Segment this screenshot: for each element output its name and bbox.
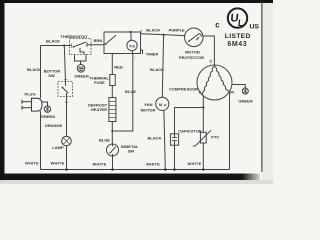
thermostat dashed box — [70, 39, 92, 55]
ground symbol (compressor, GREEN) — [242, 88, 248, 94]
svg-text:LAMP: LAMP — [52, 145, 64, 150]
svg-text:GREEN: GREEN — [41, 114, 55, 119]
wire timer to motor protector (BLACK / PURPLE) — [141, 34, 186, 36]
svg-text:HEATER: HEATER — [91, 107, 107, 112]
button switch dashed box — [58, 82, 73, 97]
svg-text:FUSE: FUSE — [94, 80, 105, 85]
node bimetal/bus junction — [111, 168, 114, 171]
timer motor circle Tm — [127, 40, 137, 50]
wire PTC to bus — [202, 143, 204, 170]
frame: bottom gray strip under band — [0, 180, 273, 184]
wire compressor S to PTC — [202, 96, 204, 132]
wire button switch to lamp (ORANGE) — [66, 97, 68, 137]
wire compressor ground stub — [232, 85, 245, 89]
motor protector heater tick — [196, 37, 199, 40]
frame: left black strip — [0, 0, 5, 181]
svg-text:BLACK: BLACK — [146, 28, 160, 33]
svg-text:c: c — [215, 21, 220, 30]
node capacitor/bus junction — [173, 168, 176, 171]
svg-text:GREEN: GREEN — [74, 74, 88, 79]
thermostat switch blade — [74, 42, 86, 47]
plug prong lower — [22, 107, 32, 109]
button switch inner stubs — [65, 82, 67, 87]
motor protector circle — [185, 28, 204, 47]
svg-text:TIMER: TIMER — [146, 52, 159, 57]
wire timer motor to top terminal — [130, 32, 132, 40]
svg-text:FAN: FAN — [145, 102, 153, 107]
thermostat entry tick — [71, 44, 73, 48]
ground symbol (thermostat, GREEN) — [77, 65, 85, 73]
wire thermostat lower stubs to ground — [75, 55, 87, 62]
svg-text:BLUE: BLUE — [99, 138, 110, 143]
button switch contact dot — [62, 87, 64, 89]
wire plug bottom to bus (WHITE) — [40, 111, 42, 169]
node junction S/capacitor — [202, 106, 204, 108]
compressor apex stub — [214, 65, 216, 66]
motor protector exit curve — [199, 34, 201, 37]
wire fan motor to bus (BLACK) — [164, 110, 165, 169]
wire heater to bimetal junction — [111, 122, 113, 144]
ground symbol (plug, GREEN) — [44, 106, 50, 112]
wire timer left pin to thermal fuse — [111, 54, 113, 75]
terminal tick on bus at timer — [140, 30, 142, 34]
svg-text:SW: SW — [128, 149, 135, 154]
wire fan drop (BLACK) — [162, 35, 163, 98]
compressor winding left arm — [203, 66, 215, 95]
wire timer right pin down (BLUE) — [112, 54, 133, 132]
wire thermostat to timer (BRN) — [87, 44, 104, 46]
wire plug ground stub — [42, 102, 48, 106]
svg-text:US: US — [250, 24, 260, 31]
svg-text:WHITE: WHITE — [51, 160, 65, 165]
svg-text:Tm: Tm — [129, 43, 135, 48]
svg-text:WHITE: WHITE — [25, 160, 39, 165]
wire junction drop to button switch — [64, 46, 65, 82]
svg-text:MOTOR: MOTOR — [141, 108, 156, 113]
timer top terminal dot — [129, 31, 131, 33]
svg-text:S: S — [199, 89, 202, 94]
node lamp/bus junction — [65, 168, 68, 171]
wire capacitor to bus (WHITE) — [174, 145, 176, 169]
thermostat inner link — [80, 48, 84, 55]
fan motor circle MF — [156, 97, 169, 110]
node junction dot (fan drop) — [163, 34, 165, 36]
svg-text:CAPACITOR: CAPACITOR — [178, 129, 202, 134]
svg-text:WHITE: WHITE — [188, 161, 202, 166]
svg-text:PLUG: PLUG — [24, 92, 35, 97]
timer box — [104, 32, 141, 54]
wire junction to capacitor corner — [175, 108, 204, 134]
timer switch blade — [105, 43, 107, 45]
svg-text:RED: RED — [114, 65, 123, 70]
button switch blade — [63, 88, 69, 94]
UL logo circle — [228, 8, 247, 27]
svg-text:BLUE: BLUE — [125, 89, 136, 94]
wire left drop to plug (BLACK) — [40, 46, 42, 99]
svg-text:LISTED: LISTED — [225, 33, 251, 40]
svg-text:GREEN: GREEN — [238, 99, 252, 104]
bimetal switch circle — [107, 144, 119, 156]
plug symbol — [32, 98, 43, 111]
svg-text:PROTECTOR: PROTECTOR — [179, 55, 204, 60]
svg-text:WHITE: WHITE — [146, 162, 160, 167]
svg-text:BLACK: BLACK — [148, 135, 162, 140]
wire compressor M to bus (right vertical) — [229, 92, 231, 170]
compressor circle — [197, 65, 232, 100]
background label area — [0, 0, 273, 184]
svg-text:PTC: PTC — [211, 134, 219, 139]
thermal fuse symbol — [110, 75, 115, 86]
terminal tick above button switch — [64, 79, 68, 81]
node PTC/bus junction — [202, 168, 205, 171]
compressor winding right arm — [214, 66, 229, 92]
motor protector contact dot — [188, 40, 190, 42]
capacitor symbol — [170, 134, 178, 145]
svg-text:BLACK: BLACK — [46, 39, 60, 44]
svg-text:PURPLE: PURPLE — [169, 28, 186, 33]
svg-text:6M43: 6M43 — [227, 41, 247, 48]
PTC symbol box — [200, 132, 206, 143]
svg-text:COMPRESSOR: COMPRESSOR — [169, 86, 198, 91]
thermostat fixed contact — [86, 43, 88, 47]
terminal tick below button switch — [65, 101, 69, 103]
svg-text:C: C — [210, 59, 213, 64]
node junction dot to button switch — [63, 44, 65, 46]
wire motor protector to compressor C — [203, 36, 215, 65]
svg-text:MOTOR: MOTOR — [185, 50, 200, 55]
wire timer motor to box bottom — [132, 51, 134, 54]
svg-text:BRN: BRN — [94, 38, 103, 43]
wire ground drop — [80, 61, 82, 65]
thermostat switch contact dot — [73, 46, 75, 48]
node heater/blue junction — [111, 130, 113, 132]
lamp symbol — [62, 136, 72, 146]
wire lamp to bottom bus — [66, 146, 68, 170]
svg-text:WHITE: WHITE — [93, 162, 107, 167]
wire fuse to heater — [111, 86, 113, 98]
PTC diagonal — [193, 130, 211, 146]
label TIMER with terminal tick — [141, 50, 143, 54]
frame: top black strip — [0, 0, 273, 3]
bottom bus wire (WHITE) — [41, 169, 230, 171]
wire top bus left segment (BLACK) — [41, 45, 72, 47]
svg-text:THERMOSTAT: THERMOSTAT — [60, 34, 88, 39]
defrost heater symbol — [109, 98, 116, 122]
frame: right thin edge line — [261, 2, 262, 172]
plug prong upper — [22, 101, 32, 103]
wire bimetal to bus (WHITE) — [112, 156, 114, 170]
outside photo background right of label edge — [262, 0, 273, 184]
motor protector blade — [189, 34, 200, 42]
node fan/bus junction — [164, 168, 167, 171]
svg-text:SW: SW — [48, 73, 55, 78]
svg-text:BLACK: BLACK — [27, 67, 41, 72]
svg-text:BLACK: BLACK — [150, 67, 164, 72]
svg-text:ORANGE: ORANGE — [45, 123, 63, 128]
